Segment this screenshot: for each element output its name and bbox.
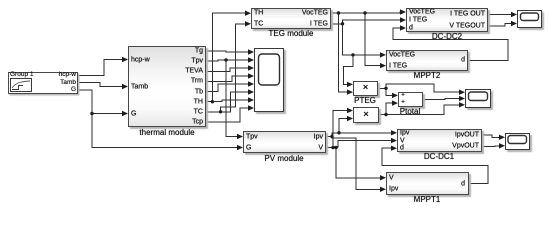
wire PTEG to Scope4 in1 xyxy=(386,84,463,92)
Group 1 port label Tamb xyxy=(60,79,76,86)
block PTEG multiplier xyxy=(353,81,378,97)
wire V: PV module output stub xyxy=(326,147,338,149)
Group 1 plot icon xyxy=(10,78,36,94)
arrowhead into TEG TC xyxy=(245,21,251,26)
wire d loop: MPPT2 to DC-DC2 xyxy=(393,28,508,60)
block thermal module xyxy=(128,46,206,127)
arrowhead into DC-DC1 V xyxy=(391,138,397,143)
arrowhead into Ppv in1 xyxy=(347,108,353,113)
DC-DC1 label xyxy=(424,153,454,161)
arrowhead into PTEG in1 xyxy=(347,82,353,87)
Scope1 screen xyxy=(254,48,284,112)
arrowheads into Scope1 xyxy=(248,49,254,54)
Scope2 screen xyxy=(517,10,542,28)
TEG port VocTEG xyxy=(302,10,328,17)
MPPT2 port VocTEG xyxy=(389,51,415,58)
DC-DC1 port IpvOUT xyxy=(455,131,479,138)
block Scope4 xyxy=(465,89,491,108)
junction dot Ppv out xyxy=(384,113,387,116)
arrowhead into PTEG in2 xyxy=(347,89,353,94)
MPPT2 label xyxy=(414,72,441,80)
junction dot I TEG xyxy=(341,22,344,25)
wire PTEG output stub xyxy=(378,87,386,89)
wire Ptotal to Scope4 in2 xyxy=(423,98,463,101)
arrowhead into Ppv in2 xyxy=(347,116,353,121)
PTEG label xyxy=(354,97,376,105)
DC-DC2 port I TEG xyxy=(409,17,427,24)
junction dot TC xyxy=(219,110,222,113)
wire Tamb: Group1 to thermal module xyxy=(78,83,126,87)
wire V branch to DC-DC1 xyxy=(338,141,395,148)
arrowhead into thermal G xyxy=(122,111,128,116)
MPPT1 port d xyxy=(461,180,465,187)
MPPT1 port V xyxy=(389,174,394,181)
PV port G xyxy=(246,144,251,151)
block MPPT1 xyxy=(386,172,469,195)
arrowhead into PV Tpv xyxy=(237,134,243,139)
thermal port hcp-w xyxy=(131,56,150,63)
arrowhead into TEG TH xyxy=(245,11,251,16)
DC-DC1 port d xyxy=(400,145,404,152)
wire PTEG to Ptotal sum in1 xyxy=(386,88,396,95)
block MPPT2 xyxy=(386,50,468,72)
PV label xyxy=(264,155,303,163)
wire VpvOUT: DC-DC1 to Scope3 xyxy=(482,145,503,148)
PV port V xyxy=(318,144,323,151)
wire VocTEG: TEG to DC-DC2 xyxy=(331,12,404,13)
block Scope2 xyxy=(517,10,542,28)
Ptotal plus 1 xyxy=(401,92,405,99)
junction dot Tpv xyxy=(224,58,227,61)
TEG port I TEG xyxy=(310,20,328,27)
thermal label xyxy=(139,129,194,137)
thermal port Trm xyxy=(191,78,203,85)
block Ptotal sum xyxy=(398,92,423,108)
arrowhead into Ptotal in1 xyxy=(392,93,398,98)
arrowhead into thermal hcp-w xyxy=(122,57,128,62)
wire G: Group1 to thermal module xyxy=(78,90,126,114)
arrowhead into DC-DC1 d xyxy=(391,146,397,151)
Group 1 port label G xyxy=(71,87,76,94)
wire TC: thermal to scope in6 xyxy=(206,92,252,112)
wire I TEG OUT: DC-DC2 to Scope2 xyxy=(488,14,515,16)
block TEG module xyxy=(251,8,331,29)
thermal port Tcp xyxy=(192,118,203,125)
Ppv x symbol xyxy=(363,109,369,119)
DC-DC2 port VocTEG xyxy=(409,9,435,16)
PV port Ipv xyxy=(314,133,323,140)
wire TH branch up to TEG module xyxy=(212,13,249,102)
thermal port Tg xyxy=(195,48,203,55)
junction dot I TEG mppt2 xyxy=(351,53,354,56)
DC-DC2 port V TEGOUT xyxy=(449,23,485,30)
wire VocTEG branch to PTEG multiplier xyxy=(339,13,352,92)
Group 1 port label hcp-w xyxy=(59,72,76,79)
junction dot PTEG out xyxy=(384,87,387,90)
wire Ipv branch to Ppv multiplier xyxy=(339,119,351,133)
MPPT1 label xyxy=(414,196,441,204)
arrowhead into Ptotal in2 xyxy=(392,100,398,105)
Ptotal label xyxy=(400,108,420,116)
wire V branch to Ppv multiplier xyxy=(333,111,351,148)
junction dot TH xyxy=(211,100,214,103)
arrowhead into MPPT2 I TEG xyxy=(380,63,386,68)
DC-DC2 port I TEG OUT xyxy=(450,11,485,18)
wire Tcp: thermal to scope in8 xyxy=(206,108,252,122)
wire hcp-w: Group1 to thermal module xyxy=(78,60,126,76)
arrowheads into Scope3 xyxy=(499,135,505,140)
arrowhead into DC-DC2 d xyxy=(400,25,406,30)
Scope3 screen xyxy=(505,133,530,150)
junction dot VocTEG a xyxy=(337,11,340,14)
junction dot Ipv a xyxy=(330,135,333,138)
junction dot G xyxy=(90,112,93,115)
thermal port TC xyxy=(194,108,203,115)
arrowhead into DC-DC1 Ipv xyxy=(391,130,397,135)
arrowhead into DC-DC2 I TEG xyxy=(400,17,406,22)
junction dot V a xyxy=(331,146,334,149)
TEG label xyxy=(269,30,314,38)
arrowheads into Scope2 xyxy=(511,12,517,17)
TEG port TH xyxy=(254,10,263,17)
wire IpvOUT: DC-DC1 to Scope3 xyxy=(482,135,503,138)
arrowhead into DC-DC2 VocTEG xyxy=(400,9,406,14)
block Ppv multiplier xyxy=(353,107,379,123)
MPPT2 port d xyxy=(461,57,465,64)
block Group 1 signal builder xyxy=(8,72,78,94)
block DC-DC1 xyxy=(397,129,482,152)
wire Ipv branch to MPPT1 xyxy=(332,137,384,190)
wire Tpv: thermal to scope in2 xyxy=(206,60,252,61)
arrowheads into Scope4 xyxy=(459,90,465,95)
wire I TEG branch to PTEG multiplier xyxy=(344,55,354,85)
block Scope1 xyxy=(254,48,284,112)
arrowhead into MPPT1 Ipv xyxy=(380,187,386,192)
wire Trm: thermal to scope in4 xyxy=(206,76,252,81)
Ptotal plus 2 xyxy=(401,100,405,107)
Group 1 title xyxy=(10,72,34,79)
wire Tpv branch to PV module xyxy=(226,60,241,137)
PTEG x symbol xyxy=(363,83,369,93)
MPPT2 port I TEG xyxy=(389,62,407,69)
MPPT1 port Ipv xyxy=(389,186,398,193)
TEG port TC xyxy=(254,20,263,27)
wire Ppv to Ptotal sum in2 xyxy=(386,103,396,114)
thermal port G xyxy=(131,110,136,117)
wire G branch to PV module xyxy=(92,114,241,148)
wire Tb: thermal to scope in5 xyxy=(206,84,252,92)
wire Ppv output stub xyxy=(379,114,386,116)
junction dot Ipv b xyxy=(337,131,340,134)
wire d loop: MPPT1 to DC-DC1 xyxy=(382,148,488,183)
wire VocTEG branch to MPPT2 xyxy=(365,13,384,66)
DC-DC1 port Ipv xyxy=(400,129,409,136)
wire Ppv to Scope4 in3 xyxy=(386,105,463,115)
arrowhead into PV G xyxy=(237,145,243,150)
junction dot V b xyxy=(334,146,337,149)
thermal port TH xyxy=(194,98,203,105)
DC-DC1 port V xyxy=(400,137,405,144)
Scope4 screen xyxy=(465,89,491,108)
DC-DC1 port VpvOUT xyxy=(452,143,479,150)
PV port Tpv xyxy=(246,133,258,140)
arrowhead into MPPT2 VocTEG xyxy=(380,52,386,57)
block PV module xyxy=(243,131,326,153)
wire V TEGOUT: DC-DC2 to Scope2 xyxy=(488,24,515,27)
wire Ipv: PV module to DC-DC1 xyxy=(326,133,395,137)
junction dot VocTEG b xyxy=(363,11,366,14)
thermal port Tpv xyxy=(191,58,203,65)
wire TEVA: thermal to scope in3 xyxy=(206,68,252,71)
thermal port Tamb xyxy=(131,83,148,90)
thermal port TEVA xyxy=(185,68,203,75)
wire I TEG: TEG to DC-DC2 xyxy=(331,20,404,24)
wire TH: thermal to scope in7 xyxy=(206,100,252,102)
arrowhead into thermal Tamb xyxy=(122,84,128,89)
block Scope3 xyxy=(505,133,530,150)
block DC-DC2 xyxy=(406,8,488,32)
wire TC branch up to TEG module xyxy=(221,24,249,112)
wire I TEG branch to MPPT2 xyxy=(343,24,385,55)
wire V branch to MPPT1 xyxy=(336,148,384,178)
DC-DC2 port d xyxy=(409,25,413,32)
wire Tg: thermal to scope in1 xyxy=(206,51,252,52)
arrowhead into MPPT1 V xyxy=(380,175,386,180)
DC-DC2 label xyxy=(432,33,462,41)
thermal port Tb xyxy=(195,88,203,95)
